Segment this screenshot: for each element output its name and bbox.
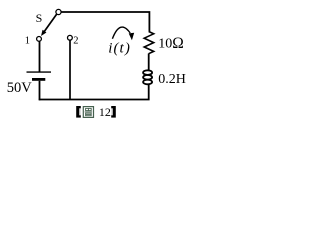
- wire from battery to bottom wire: [39, 81, 41, 101]
- contact terminal 2: [68, 35, 73, 40]
- svg-text:1: 1: [25, 36, 30, 47]
- switch blade arrowhead: [41, 30, 46, 36]
- svg-text:S: S: [36, 11, 43, 25]
- current arrowhead: [129, 33, 135, 41]
- svg-text:Ω: Ω: [172, 35, 184, 52]
- switch pivot terminal: [56, 9, 61, 14]
- wire between resistor and inductor: [148, 54, 150, 71]
- svg-text:50V: 50V: [7, 80, 33, 96]
- caption character tu (figure): [83, 107, 93, 118]
- current arrow arc i(t): [112, 27, 130, 39]
- battery 50V long plate: [27, 71, 52, 73]
- caption closing bracket: [111, 106, 116, 118]
- wire from contact 1 down to battery: [39, 41, 41, 72]
- inductor L 0.2H coil: [143, 70, 152, 84]
- wire from contact 2 down to bottom wire: [69, 40, 71, 100]
- wire top from switch pivot to top-right corner, down right side: [61, 12, 150, 32]
- caption opening bracket: [76, 106, 81, 118]
- wire from inductor down to bottom-right corner and bottom wire to battery: [39, 84, 149, 100]
- switch S blade: [44, 14, 56, 31]
- contact terminal 1: [37, 37, 42, 42]
- svg-text:12: 12: [99, 105, 111, 119]
- svg-text:10: 10: [158, 37, 172, 52]
- svg-text:2: 2: [73, 36, 78, 47]
- resistor R 10 ohm zigzag: [144, 32, 154, 54]
- battery 50V short plate: [32, 78, 45, 81]
- svg-text:0.2H: 0.2H: [158, 72, 186, 87]
- svg-text:i(t): i(t): [108, 41, 131, 57]
